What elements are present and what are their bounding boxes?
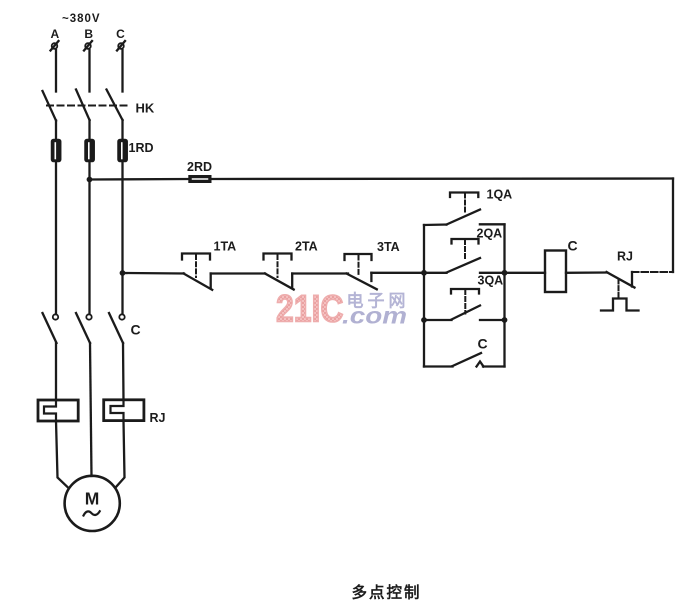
wire C heater to motor bbox=[116, 421, 125, 488]
wire box to coil bbox=[505, 272, 546, 274]
wire 2TA to 3TA bbox=[292, 272, 348, 274]
wire A heater to motor bbox=[56, 421, 69, 488]
wire right edge vertical bbox=[672, 179, 674, 273]
wire 1TA to 2TA bbox=[211, 272, 265, 274]
contactor C main contact pole C bbox=[109, 313, 125, 343]
node on phase C (control tap) bbox=[120, 270, 126, 276]
wire B contact to motor bbox=[90, 343, 92, 476]
pushbutton 2QA (NO start) bbox=[424, 239, 505, 273]
contact C self-holding (NO) bbox=[424, 353, 505, 367]
wire RJ to right edge (broken scan) bbox=[632, 271, 673, 273]
wire A fuse to contact bbox=[55, 162, 57, 315]
svg-text:1TA: 1TA bbox=[214, 240, 237, 254]
wire A switch to fuse bbox=[55, 121, 57, 141]
svg-text:.com: .com bbox=[342, 303, 407, 329]
wire 3TA to box bbox=[371, 272, 424, 274]
pushbutton 1TA (NC stop) bbox=[182, 254, 212, 290]
svg-text:RJ: RJ bbox=[150, 411, 166, 425]
motor tilde mark bbox=[84, 511, 100, 515]
wire B fuse to contact bbox=[88, 162, 90, 315]
switch HK pole A blade bbox=[43, 91, 57, 121]
heater RJ phase C bbox=[104, 400, 144, 421]
terminal A bbox=[50, 27, 59, 51]
pushbutton 2TA (NC stop) bbox=[264, 254, 294, 290]
svg-text:2TA: 2TA bbox=[295, 240, 318, 254]
fuse 2RD bbox=[189, 176, 211, 183]
pushbutton 1QA (NO start) bbox=[424, 193, 505, 226]
wire phase B top bbox=[88, 50, 90, 92]
junction node box left (main line) bbox=[421, 270, 427, 276]
svg-text:2QA: 2QA bbox=[477, 227, 503, 241]
svg-text:~380V: ~380V bbox=[62, 13, 101, 25]
wire control top line left of fuse 2RD bbox=[90, 178, 190, 181]
heater RJ phase A bbox=[38, 400, 78, 421]
pushbutton 3QA (NO start) bbox=[424, 289, 505, 320]
wire C fuse to contact bbox=[121, 162, 123, 315]
switch HK linkage (dashed) bbox=[47, 105, 131, 107]
svg-text:2RD: 2RD bbox=[187, 160, 212, 174]
junction node 3QA right bbox=[502, 317, 508, 323]
switch HK pole B blade bbox=[76, 90, 90, 121]
thermal element symbol below RJ bbox=[601, 280, 639, 311]
svg-text:C: C bbox=[478, 336, 488, 352]
box right rail bbox=[503, 225, 505, 367]
wire coil to RJ contact bbox=[566, 271, 607, 274]
wire control top line right of fuse 2RD bbox=[211, 177, 673, 180]
fuse 1RD phase B bbox=[85, 140, 94, 162]
svg-text:C: C bbox=[568, 238, 578, 254]
fuse 1RD phase A bbox=[52, 140, 61, 162]
contact RJ (thermal relay NC) bbox=[607, 272, 635, 288]
junction node 3QA left bbox=[421, 317, 427, 323]
contactor C main contact pole A bbox=[43, 313, 59, 343]
svg-text:1RD: 1RD bbox=[129, 141, 154, 155]
svg-text:C: C bbox=[131, 322, 141, 338]
terminal C bbox=[116, 27, 125, 51]
wire C switch to fuse bbox=[121, 120, 123, 140]
svg-text:C: C bbox=[116, 27, 125, 41]
node on phase B (control tap) bbox=[87, 177, 93, 183]
switch HK pole C blade bbox=[107, 90, 123, 121]
wire tap to 1TA bbox=[123, 272, 185, 275]
terminal B bbox=[84, 27, 93, 51]
svg-text:多点控制: 多点控制 bbox=[352, 583, 422, 602]
wire phase A top bbox=[55, 50, 57, 92]
fuse 1RD phase C bbox=[118, 140, 127, 162]
svg-text:A: A bbox=[50, 27, 59, 41]
svg-text:B: B bbox=[84, 27, 93, 41]
coil C bbox=[545, 251, 566, 293]
motor M bbox=[65, 476, 120, 531]
svg-text:3QA: 3QA bbox=[478, 274, 504, 288]
svg-text:M: M bbox=[85, 489, 100, 509]
pushbutton 3TA (NC stop) bbox=[345, 254, 377, 289]
svg-text:3TA: 3TA bbox=[377, 240, 400, 254]
wire B switch to fuse bbox=[88, 120, 90, 140]
svg-text:21IC: 21IC bbox=[276, 289, 344, 331]
junction node box right (main line) bbox=[502, 270, 508, 276]
wire A contact to heater bbox=[55, 343, 57, 400]
box left rail bbox=[423, 225, 425, 367]
contactor C main contact pole B bbox=[76, 313, 92, 343]
svg-text:1QA: 1QA bbox=[487, 188, 513, 202]
svg-text:HK: HK bbox=[136, 101, 155, 116]
wire phase C top bbox=[121, 50, 123, 92]
svg-text:RJ: RJ bbox=[617, 250, 633, 264]
wire C contact to heater bbox=[122, 343, 125, 400]
